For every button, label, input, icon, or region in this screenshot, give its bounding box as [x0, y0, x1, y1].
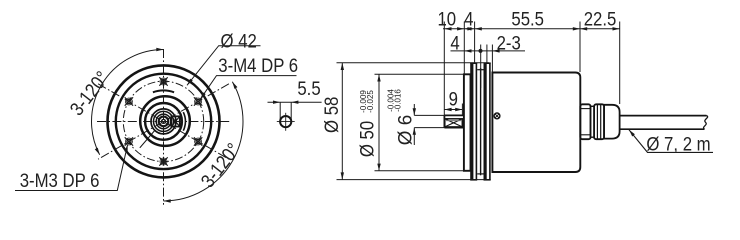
cable — [620, 116, 707, 130]
tapped hole 90deg — [159, 77, 167, 85]
extension line groove rear — [486, 45, 488, 63]
leader Ø7 cable — [629, 130, 713, 153]
tolerance Ø6 — [387, 89, 403, 112]
hub clamp ring r24.8 eccentric — [140, 96, 190, 146]
shaft end centerlines — [285, 113, 287, 131]
center circle — [162, 119, 166, 123]
svg-text:3-M3 DP 6: 3-M3 DP 6 — [20, 170, 100, 191]
encoder body — [492, 73, 580, 173]
diagonal centerline 30-210 — [98, 84, 229, 159]
hub circle r12.5 — [151, 109, 176, 134]
extension line pilot face — [463, 22, 465, 75]
arrows second line — [464, 49, 471, 52]
hub top arc r31 — [153, 90, 174, 92]
angle arc 120deg upper-left — [92, 50, 164, 155]
extension line body front — [491, 45, 493, 73]
clamp slot line lower-left — [140, 130, 156, 148]
vertical centerline — [163, 49, 165, 205]
extension line gland end — [619, 22, 621, 105]
svg-text:2-3: 2-3 — [497, 32, 521, 53]
bolt circle Ø42 (dash-dot) — [123, 81, 203, 161]
dimension Ø50 — [375, 74, 464, 171]
shaft end detail: dimension 5.5 — [268, 102, 322, 120]
cable gland nose — [604, 105, 620, 139]
svg-text:5.5: 5.5 — [297, 78, 320, 99]
tapped hole 30deg — [194, 97, 202, 105]
angle arc 120deg lower-right — [164, 82, 244, 201]
clamp screw block right of hub — [171, 116, 179, 126]
cable gland collar 2 — [594, 104, 604, 139]
dot terminator — [479, 49, 483, 53]
svg-text:-0.025: -0.025 — [366, 90, 375, 113]
shaft clamp hatch box — [445, 119, 463, 127]
diagonal centerline 150-330 — [98, 84, 229, 159]
circle Ø50 — [116, 74, 211, 169]
horizontal centerline — [97, 121, 231, 123]
extension line shaft tip — [443, 22, 445, 116]
dimension Ø58 — [337, 63, 490, 180]
svg-text:22.5: 22.5 — [584, 8, 617, 29]
top dimension chain line — [443, 28, 620, 30]
extension line body rear — [579, 22, 581, 73]
svg-text:Ø 42: Ø 42 — [221, 30, 257, 51]
shaft — [444, 115, 463, 127]
hub circle r7.3 — [156, 114, 171, 129]
screw on body — [494, 113, 500, 119]
extension line groove front — [480, 45, 482, 89]
svg-text:Ø 58: Ø 58 — [321, 97, 342, 133]
svg-text:10: 10 — [437, 8, 456, 29]
cable gland collar 1 — [580, 104, 590, 139]
flange groove — [477, 68, 483, 175]
leader 3-M3 DP 6 — [15, 145, 128, 191]
svg-text:4: 4 — [464, 8, 473, 29]
dimension 9 — [444, 109, 462, 111]
svg-text:3-M4 DP 6: 3-M4 DP 6 — [218, 55, 298, 76]
tapped hole 330deg — [194, 137, 202, 145]
svg-text:Ø 6: Ø 6 — [395, 115, 416, 145]
hub circle r18.4 — [145, 103, 182, 140]
outer circle Ø58 — [108, 65, 220, 177]
svg-text:Ø 7, 2 m: Ø 7, 2 m — [646, 133, 710, 154]
svg-text:55.5: 55.5 — [511, 8, 544, 29]
arrows top chain — [444, 27, 451, 30]
dimension Ø6 — [414, 104, 444, 145]
shaft end circle Ø6 — [280, 116, 291, 127]
leader 3-M4 DP 6 — [200, 76, 296, 100]
tapped hole 150deg — [125, 97, 133, 105]
second dimension line — [451, 50, 526, 52]
flange disc B Ø58 — [484, 63, 491, 180]
leader Ø42 — [187, 46, 261, 86]
tapped hole 210deg — [125, 137, 133, 145]
svg-text:4: 4 — [450, 32, 459, 53]
shaft circle r4.8 — [159, 117, 169, 127]
cable gland neck — [591, 106, 595, 137]
svg-text:Ø 50: Ø 50 — [357, 121, 378, 157]
tolerance Ø50 — [359, 90, 375, 113]
svg-text:9: 9 — [449, 88, 458, 109]
extension line flange face — [474, 22, 476, 63]
svg-text:-0.016: -0.016 — [393, 89, 402, 112]
cable break — [704, 116, 708, 130]
pilot collar Ø50 — [464, 74, 471, 171]
flange disc A Ø58 — [470, 63, 477, 180]
hub boss arc right — [183, 112, 185, 131]
tapped hole 270deg — [159, 157, 167, 165]
hub circle r10 — [154, 111, 174, 131]
